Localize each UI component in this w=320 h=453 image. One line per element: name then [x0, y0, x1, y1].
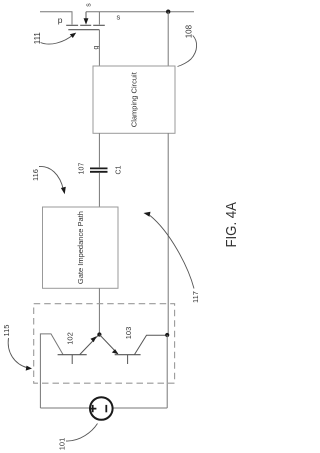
wire gate to clamping circuit	[98, 30, 100, 66]
leader arrow 117 -> wire	[150, 216, 194, 289]
capacitor C1 plates	[90, 167, 108, 169]
transistor Q103 emitter (arrow into base)	[99, 335, 117, 354]
svg-text:117: 117	[191, 291, 200, 303]
transistor Q102 base stub	[71, 355, 73, 364]
dashed box 115	[34, 304, 175, 384]
svg-text:Clamping Circuit: Clamping Circuit	[130, 71, 139, 127]
wire node to bottom rail	[166, 335, 168, 408]
leader arrow 111 -> gate	[41, 35, 74, 45]
wire bottom rail left	[40, 407, 90, 409]
wire source rail (top, to node)	[86, 11, 194, 13]
svg-text:108: 108	[185, 24, 194, 38]
svg-text:101: 101	[58, 438, 67, 451]
transistor 111 contact bars	[66, 24, 105, 26]
svg-text:s: s	[117, 13, 121, 22]
wire bottom rail right	[113, 407, 168, 409]
svg-text:Gate Impedance Path: Gate Impedance Path	[76, 211, 85, 284]
transistor Q103 base bar	[115, 354, 141, 356]
wire source lead	[98, 12, 100, 25]
transistor Q102 emitter (arrow to node)	[80, 335, 99, 355]
transistor Q111 body lead with arrow	[85, 12, 87, 19]
transistor Q102 base bar	[58, 354, 87, 356]
leader 101 -> source	[66, 424, 98, 442]
svg-text:115: 115	[2, 325, 11, 337]
transistor Q102 collector wire	[40, 334, 63, 408]
transistor 111 gate bar	[68, 29, 99, 31]
svg-text:107: 107	[79, 163, 86, 175]
transistor Q103 base stub	[127, 355, 129, 364]
wire capacitor to gate impedance path	[98, 173, 100, 207]
svg-text:103: 103	[124, 327, 133, 340]
svg-text:s: s	[86, 3, 93, 7]
gate impedance path box 116	[43, 207, 119, 288]
svg-text:C1: C1	[115, 165, 122, 174]
wire clamping to bjt collector (right, net 117)	[167, 133, 169, 335]
leader 108 -> clamping box	[178, 36, 197, 67]
wire gate impedance to bjt node	[98, 288, 100, 334]
wire node to clamping circuit	[167, 12, 169, 66]
clamping circuit box U108	[93, 66, 175, 133]
leader arrow 116 -> gate impedance box	[39, 166, 64, 190]
node gate junction dot	[97, 332, 101, 336]
voltage source plus	[89, 405, 96, 412]
voltage source V101 circle	[90, 397, 113, 420]
svg-text:116: 116	[31, 169, 40, 181]
wire drain rail (top-left)	[40, 12, 72, 25]
transistor Q103 collector	[135, 335, 168, 354]
svg-text:p: p	[58, 15, 63, 25]
voltage source minus (rotated)	[105, 405, 107, 412]
leader arrow 115 -> dashed box	[8, 338, 27, 368]
svg-text:FIG. 4A: FIG. 4A	[223, 202, 240, 248]
wire clamping to capacitor	[98, 133, 100, 167]
svg-text:g: g	[93, 45, 100, 49]
svg-text:102: 102	[66, 332, 75, 345]
node 117 junction dot	[165, 333, 169, 337]
node s junction dot	[166, 10, 170, 14]
